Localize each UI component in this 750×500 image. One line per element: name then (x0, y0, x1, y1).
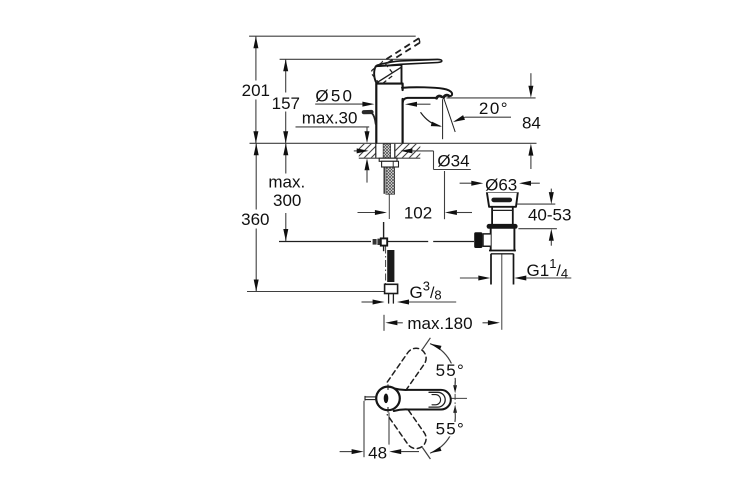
top view: pop-up rod (plan) (365, 396, 377, 398)
rod guide block (373, 239, 377, 245)
wire (447, 97, 536, 99)
dim 102 (444, 171, 446, 219)
drain seal ring (487, 224, 518, 229)
svg-text:55°: 55° (436, 361, 465, 380)
dim 40-53 (517, 203, 555, 205)
top view: handle rotated up (dashed) (387, 348, 426, 393)
svg-text:max.: max. (268, 173, 305, 192)
vertical dash-dot through arc arrows (454, 381, 456, 413)
svg-text:55°: 55° (436, 419, 465, 438)
counter top surface (250, 142, 537, 144)
spout outlet curls (437, 96, 442, 98)
svg-text:Ø63: Ø63 (485, 175, 517, 194)
dim dia63 (460, 182, 472, 184)
centreline dash-dot (385, 247, 387, 289)
faucet centreline stub (388, 195, 390, 220)
svg-text:360: 360 (241, 210, 269, 229)
drain flange (487, 192, 518, 207)
threaded stud (383, 144, 390, 158)
drain neck (492, 207, 513, 224)
svg-text:20°: 20° (479, 99, 509, 118)
drain body (491, 229, 515, 251)
tailpipe centreline (501, 255, 503, 330)
mounting nut (382, 161, 399, 167)
dim 201 (255, 36, 257, 80)
55deg axis extension lines (422, 338, 430, 350)
svg-text:48: 48 (368, 444, 387, 463)
dim dia34 (354, 150, 357, 152)
svg-text:201: 201 (242, 81, 270, 100)
top view: spout dot (384, 394, 389, 404)
faucet body (375, 84, 377, 143)
G3/8 connector nut (385, 284, 398, 293)
top view: centre marks (387, 384, 389, 390)
handle base (374, 65, 401, 84)
drain plug (491, 198, 512, 203)
pop-up rod knob (364, 110, 372, 114)
water stream vertical (442, 99, 444, 139)
dim max180 (383, 315, 385, 331)
horizontal pop-up rod (279, 241, 371, 243)
dim 84 (530, 73, 532, 86)
mounting washer (379, 158, 397, 161)
label 55 bottom (435, 422, 466, 437)
horizontal centreline (429, 397, 467, 399)
svg-text:84: 84 (522, 114, 541, 133)
dim 48 (363, 401, 365, 457)
water stream 20 deg (444, 99, 455, 132)
svg-text:Ø50: Ø50 (315, 87, 354, 106)
spout (402, 87, 452, 96)
drain lever knob (474, 232, 482, 248)
svg-text:Ø34: Ø34 (437, 151, 469, 170)
connector pipe end (388, 294, 390, 304)
wire (249, 35, 416, 37)
drain tailpipe (490, 254, 492, 285)
svg-text:157: 157 (272, 94, 300, 113)
top view: handle (plan) (394, 388, 451, 411)
faucet dome cap (376, 83, 404, 85)
drain bottom cap (489, 250, 516, 252)
shank tubes in counter hole (375, 144, 377, 158)
vertical pop-up rod (383, 222, 385, 238)
drain side port (483, 234, 491, 246)
wire (247, 291, 384, 293)
dim 360 (255, 143, 257, 209)
dim max300 (285, 143, 287, 173)
top view: 55deg arcs (431, 344, 456, 386)
handle raised (dashed) (382, 38, 419, 62)
svg-text:40-53: 40-53 (528, 206, 571, 225)
svg-text:300: 300 (273, 191, 301, 210)
20 deg arc arrow (421, 113, 440, 127)
counter underside (359, 157, 421, 159)
svg-text:max.30: max.30 (302, 109, 358, 128)
hose line left of stud (383, 167, 385, 194)
svg-text:102: 102 (404, 204, 432, 223)
top view: handle inner end (429, 392, 445, 407)
top view: body circle (376, 387, 400, 411)
handle lever (377, 59, 442, 67)
svg-text:max.180: max.180 (407, 314, 472, 333)
supply hose (387, 250, 394, 282)
wire (280, 58, 439, 60)
clamp screw (381, 238, 387, 245)
top view: handle rotated down (dashed) (387, 403, 426, 448)
label 55 top (435, 363, 466, 378)
dim 157 (285, 59, 287, 92)
